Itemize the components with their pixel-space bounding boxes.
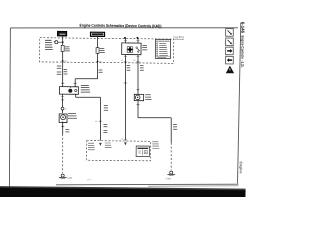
- label arrow to connector circle: [54, 40, 56, 43]
- wire L2 color label: [99, 69, 103, 71]
- wire L1 vertical from banner B1: [62, 36, 64, 45]
- svg-text:C1: C1: [121, 60, 123, 62]
- connector dots on wire x100.4: [100, 120, 101, 121]
- page frame bottom border second line: [148, 185, 238, 187]
- fuel pump module dashed outline: [87, 141, 151, 161]
- svg-text:Underhood: Underhood: [173, 38, 184, 41]
- connector dots below M2: [137, 104, 138, 105]
- bottom black scan bar: [0, 187, 246, 203]
- page frame right border: [238, 22, 241, 183]
- wire below M2: [137, 101, 139, 118]
- svg-text:Engine Controls - 4.2L: Engine Controls - 4.2L: [240, 35, 245, 68]
- component M1 label (right): [68, 113, 76, 115]
- terminal arrow into module (wire x100.4): [99, 143, 102, 146]
- page frame bottom border: [56, 182, 238, 186]
- wire color label on ground drop: [173, 124, 177, 126]
- relay switch contact: [136, 47, 137, 48]
- connector circle on feed wire: [55, 41, 58, 44]
- fuse F2 on wire L2: [96, 48, 99, 54]
- component box K1 (clutch/diode): [59, 87, 78, 95]
- wire L1 below fuse: [61, 52, 64, 87]
- dashed run to ground G304: [170, 143, 173, 171]
- nav icon: diagonal-arrow button 2: [226, 38, 234, 46]
- junction dot on wire L1: [62, 41, 64, 43]
- wire L2 below fuse to left turn: [96, 53, 99, 79]
- connector marks C1 on L1 at fuse box edge: [61, 60, 65, 62]
- wire L1 color label: [64, 68, 68, 70]
- module right outside label: [152, 141, 158, 143]
- wire below M1: [62, 121, 64, 134]
- connector dots on stub x75.2: [74, 83, 75, 84]
- elbow right to ground drop: [138, 116, 171, 119]
- fuse block - underhood dashed outline: [40, 38, 174, 64]
- svg-text:S1: S1: [64, 108, 66, 110]
- connector dots on relay left wire: [125, 82, 126, 83]
- fuse block internal bus dots feeding relay: [124, 37, 126, 39]
- page frame top border / title underline: [10, 25, 238, 30]
- connector dots above M2: [137, 89, 138, 90]
- dashed run of wire L1 to ground: [61, 134, 64, 173]
- relay feed stubs with terminal arrows: [124, 38, 126, 43]
- ground G304 symbol: [170, 171, 173, 174]
- fuse F2 label: [100, 48, 105, 50]
- relay output stubs: [124, 55, 126, 62]
- connector dots on L1 above component box: [62, 82, 63, 83]
- nav icon: right-arrow button: [226, 47, 234, 55]
- nav icon: diagonal-arrow button 1: [226, 29, 234, 37]
- power banner B1 (black box on left feed): [57, 31, 66, 36]
- page frame left border: [9, 28, 11, 187]
- svg-text:C1: C1: [65, 61, 67, 63]
- wire x100.4 color labels: [104, 124, 108, 126]
- svg-text:C2: C2: [133, 60, 135, 62]
- ground G305 symbol: [61, 174, 64, 177]
- connector dots below M1: [62, 126, 63, 127]
- wire x100.4 circuit label upper: [104, 105, 108, 107]
- pump connector pin box: [136, 146, 149, 157]
- terminal marks below K1 left stub: [61, 95, 64, 97]
- relay coil symbol (bold plus): [127, 47, 133, 53]
- svg-text:C1: C1: [100, 61, 102, 63]
- component M2 label (right): [145, 94, 151, 96]
- relay K2 box: [122, 43, 141, 55]
- svg-text:C4: C4: [121, 138, 123, 140]
- connector marks at fuse box bottom edge (relay wires): [125, 61, 126, 62]
- relay right wire down to motor M2: [137, 62, 140, 94]
- connector marks on L2 at fuse box edge: [96, 60, 100, 62]
- module left label text: [88, 142, 94, 144]
- svg-text:Engine: Engine: [239, 161, 243, 173]
- component M1 box with circle symbol: [59, 114, 67, 123]
- power banner B2 (Hot At All Times box): [90, 32, 104, 36]
- terminal arrow into module (wire x126.5): [124, 142, 127, 145]
- relay left wire color label: [127, 65, 131, 67]
- fuse F1 label: [65, 46, 70, 48]
- fuse F1 on wire L1: [61, 45, 64, 51]
- clutch coil symbol (filled): [68, 89, 72, 93]
- fuse block label text block (left inside): [45, 39, 52, 41]
- svg-text:C2: C2: [95, 121, 97, 123]
- K1 right stub, elbow right then down: [75, 94, 77, 97]
- nav icon: left-arrow button: [226, 56, 234, 64]
- svg-text:Engine Controls Schematics (De: Engine Controls Schematics (Device Contr…: [79, 23, 162, 29]
- relay left wire down to fuel pump connector: [125, 62, 127, 141]
- relay K2 label (right): [142, 44, 147, 46]
- legend table box (fuse block details): [155, 39, 170, 58]
- splice S1 on wire L1: [61, 107, 64, 110]
- wire color label below M1: [65, 129, 69, 131]
- component M2 box with circle symbol: [134, 94, 143, 100]
- relay right wire color label: [140, 65, 144, 67]
- component K1 label (right): [81, 84, 89, 86]
- wire L2 vertical from banner B2: [96, 36, 98, 47]
- svg-text:FUSE BLOCK: FUSE BLOCK: [156, 40, 170, 42]
- K1 left stub down: [61, 94, 63, 107]
- svg-text:6-146: 6-146: [240, 22, 245, 34]
- svg-text:C410: C410: [87, 179, 91, 181]
- module mid label text: [105, 142, 111, 144]
- nav icon: warning triangle: [226, 66, 234, 74]
- wire L2 elbow to component box: [75, 78, 97, 80]
